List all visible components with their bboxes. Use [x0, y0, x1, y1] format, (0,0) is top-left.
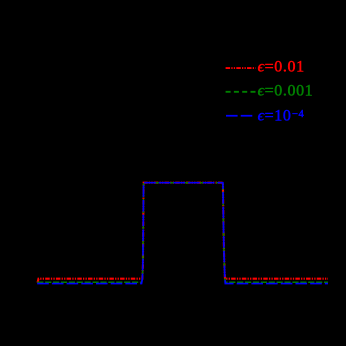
curve epsilon=0.001 (green dashed) — [37, 183, 328, 283]
svg-text:ϵ=0.001: ϵ=0.001 — [258, 83, 314, 100]
curve epsilon=1e-4 (blue dashed) — [37, 183, 328, 284]
legend sample red — [226, 67, 256, 69]
svg-text:ϵ=0.01: ϵ=0.01 — [258, 59, 305, 76]
legend sample blue — [226, 115, 253, 117]
curve epsilon=0.01 (red dash-dot) — [38, 183, 328, 283]
legend sample green — [226, 91, 256, 93]
